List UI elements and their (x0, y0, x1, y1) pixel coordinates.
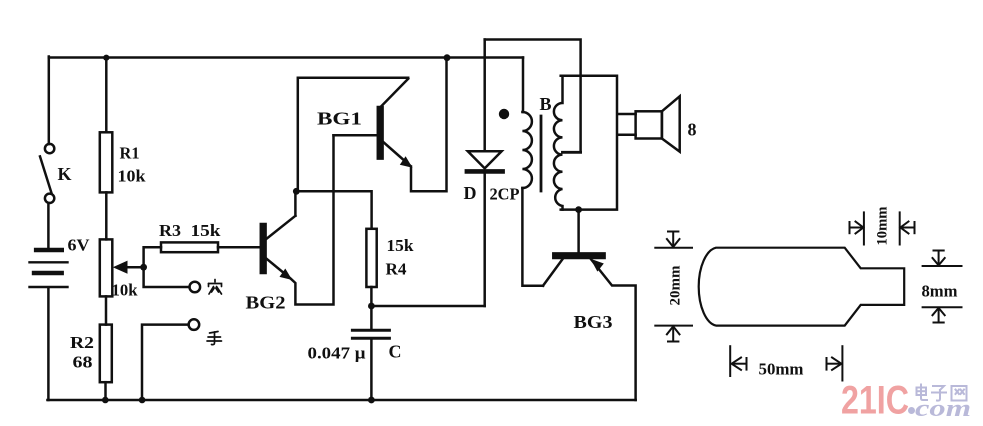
wire secondary tap (563, 151, 581, 154)
svg-text:R3: R3 (159, 221, 181, 240)
svg-text:15k: 15k (387, 236, 415, 255)
svg-text:10mm: 10mm (875, 206, 891, 245)
svg-text:com: com (915, 396, 971, 422)
battery 6V (30, 236, 91, 288)
node hand branch / bottom rail (139, 397, 146, 404)
wire diode branch upper (483, 40, 486, 152)
svg-text:8: 8 (688, 120, 697, 140)
svg-text:B: B (540, 94, 552, 114)
wire junction to diode bottom (371, 305, 484, 308)
terminal hand (shou) (189, 319, 200, 330)
wire BG1 loop to R4 (296, 191, 371, 229)
svg-text:BG2: BG2 (246, 293, 286, 313)
wire left rail upper (48, 57, 51, 145)
svg-text:8mm: 8mm (922, 282, 958, 301)
wire wiper down to hole terminal (144, 267, 190, 287)
transformer core (540, 116, 543, 191)
wire wiper up to R3 (144, 247, 161, 267)
wire potentiometer to R2 (105, 296, 108, 324)
wire bottom rail (48, 399, 636, 402)
watermark 21IC (841, 379, 915, 423)
svg-text:C: C (389, 342, 402, 362)
wire primary top lead (522, 58, 525, 113)
dimension 10mm (850, 206, 915, 245)
wire transformer tap box (485, 40, 581, 153)
node top rail / R1 (103, 55, 109, 61)
transformer B primary winding (522, 112, 532, 188)
dimension 50mm (730, 346, 842, 380)
svg-text:20mm: 20mm (668, 265, 684, 305)
svg-text:R1: R1 (120, 144, 140, 163)
transistor BG2 (246, 135, 334, 312)
svg-text:6V: 6V (68, 236, 91, 255)
switch K (40, 144, 72, 203)
svg-text:10k: 10k (118, 167, 147, 186)
svg-text:2CP: 2CP (490, 185, 520, 204)
transistor BG1 (298, 58, 447, 192)
wire junction down to capacitor (370, 306, 373, 329)
wire R2 bottom lead (104, 382, 107, 400)
wire primary bottom lead to BG3 (522, 188, 543, 286)
resistor R4 15k (366, 229, 414, 287)
wire top rail (49, 56, 523, 59)
svg-text:50mm: 50mm (759, 360, 804, 379)
terminal hole (xue) (190, 282, 201, 293)
dimension 20mm (655, 232, 692, 342)
node R2 / bottom rail (102, 397, 109, 404)
phase dot (499, 109, 509, 119)
resistor R1 (100, 132, 146, 192)
svg-text:0.047 μ: 0.047 μ (308, 344, 366, 363)
wire hand terminal branch (142, 325, 189, 400)
wire R1 to potentiometer (105, 192, 108, 239)
transformer B secondary winding (554, 76, 563, 210)
label shou character (207, 332, 222, 345)
watermark dianzi wang characters (917, 385, 967, 401)
svg-text:21IC: 21IC (841, 379, 909, 423)
svg-text:10k: 10k (112, 281, 139, 300)
potentiometer W 10k (100, 239, 144, 299)
svg-text:R4: R4 (386, 260, 408, 279)
wire diode bottom lead (483, 174, 486, 307)
wire R1 top lead (105, 58, 108, 133)
diode D 2CP (464, 151, 520, 203)
dimension 8mm (922, 251, 962, 323)
resistor R3 15k (159, 221, 221, 252)
svg-text:K: K (58, 164, 72, 184)
wire switch to battery (47, 203, 50, 248)
wire capacitor to bottom rail (370, 340, 373, 400)
probe body outline (699, 248, 905, 326)
label xue character (209, 280, 222, 295)
resistor R2 68 (70, 325, 112, 383)
node wiper junction (140, 264, 147, 271)
svg-text:BG1: BG1 (317, 109, 362, 129)
speaker 8 ohm (636, 96, 697, 151)
wire battery to bottom rail (47, 288, 50, 400)
svg-text:68: 68 (73, 353, 93, 372)
wire R4 bottom to junction (370, 287, 373, 306)
transistor BG3 (543, 210, 636, 400)
node top rail / BG1 emitter riser (444, 54, 451, 61)
node capacitor / bottom rail (368, 397, 375, 404)
svg-text:BG3: BG3 (574, 312, 613, 332)
svg-text:15k: 15k (191, 221, 222, 240)
node BG2 collector / BG1 collector loop (293, 188, 300, 195)
svg-text:R2: R2 (70, 333, 94, 352)
wire speaker loop (561, 76, 636, 210)
svg-text:D: D (464, 183, 477, 203)
node R4 / C / diode wire (368, 303, 375, 310)
wire R3 to BG2 base (218, 246, 261, 249)
capacitor C 0.047u (308, 330, 402, 362)
node BG3 base / speaker loop (575, 206, 582, 213)
